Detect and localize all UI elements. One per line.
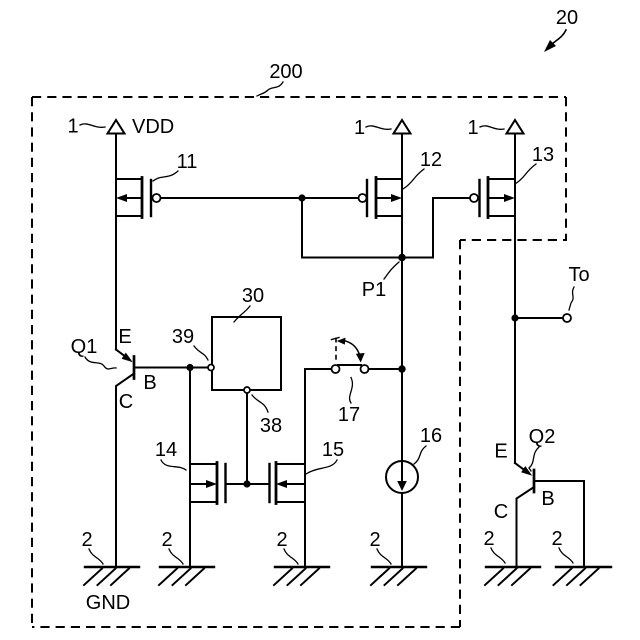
label 2 (gnd Q2 B) xyxy=(551,528,562,550)
leader 17 xyxy=(350,378,353,404)
label 2 (gnd M14) xyxy=(161,529,172,551)
ground M15 xyxy=(274,567,329,585)
pmos transistor 11 xyxy=(116,178,161,218)
label Q2 xyxy=(529,426,556,448)
junction node gates 14-15 xyxy=(243,480,250,487)
junction node on gate bus xyxy=(298,194,305,201)
svg-text:2: 2 xyxy=(369,529,380,551)
nmos transistor 15 xyxy=(247,463,305,504)
switch 17 xyxy=(332,338,369,374)
svg-text:B: B xyxy=(143,372,156,394)
label 2 (gnd M15) xyxy=(276,529,287,551)
leader 11 xyxy=(153,171,178,181)
leader 2 gnd M14 xyxy=(169,549,183,564)
wire 38 down to gates xyxy=(246,394,248,484)
svg-text:2: 2 xyxy=(483,528,494,550)
label 2 (gnd 16) xyxy=(369,529,380,551)
wire riser to gate of 13 xyxy=(433,198,470,258)
transistor Q1 xyxy=(116,216,207,567)
leader 39 xyxy=(194,346,208,360)
VDD terminal 1 (left) xyxy=(108,120,125,134)
svg-text:1: 1 xyxy=(467,117,478,139)
svg-text:Q1: Q1 xyxy=(71,336,98,358)
svg-text:C: C xyxy=(119,391,133,413)
label 2 (gnd Q1) xyxy=(81,529,92,551)
leader 15 xyxy=(306,460,337,474)
label B (Q2) xyxy=(541,488,554,510)
leader To xyxy=(569,287,574,310)
label B (Q1) xyxy=(143,372,156,394)
label To xyxy=(568,264,589,286)
label 30 xyxy=(242,285,264,307)
leader Q2 xyxy=(529,447,539,471)
pmos transistor 12 xyxy=(359,178,403,218)
leader 30 xyxy=(234,306,250,322)
label 11 xyxy=(177,151,198,173)
leader 13 xyxy=(515,164,536,184)
wire gate bus down to P1 xyxy=(302,198,433,258)
leader for 200 xyxy=(257,82,283,96)
label 1 (right) xyxy=(467,117,478,139)
pmos transistor 13 xyxy=(470,178,515,218)
svg-text:14: 14 xyxy=(155,439,177,461)
label Q1 xyxy=(71,336,98,358)
svg-text:C: C xyxy=(494,501,508,523)
svg-text:200: 200 xyxy=(269,61,302,83)
svg-text:E: E xyxy=(118,326,131,348)
nmos transistor 14 xyxy=(190,463,247,504)
svg-text:11: 11 xyxy=(177,151,198,173)
label 14 xyxy=(155,439,177,461)
transistor Q2 xyxy=(515,463,584,567)
terminal To circle xyxy=(563,314,571,322)
wire VDD1 to M11 xyxy=(115,134,117,180)
svg-text:1: 1 xyxy=(67,116,78,138)
node P1 junction xyxy=(398,254,406,262)
svg-text:16: 16 xyxy=(420,425,442,447)
svg-text:30: 30 xyxy=(242,285,264,307)
leader P1 xyxy=(384,262,399,279)
svg-text:Q2: Q2 xyxy=(529,426,556,448)
ground M14 xyxy=(159,567,214,585)
VDD terminal 1 (right) xyxy=(507,120,524,134)
label 38 xyxy=(260,415,282,437)
block 30 xyxy=(212,317,281,390)
label C (Q2) xyxy=(494,501,508,523)
leader 16 xyxy=(414,446,426,464)
label 200 xyxy=(269,61,302,83)
wire M12 drain down through switch node to current source xyxy=(401,216,403,567)
svg-text:17: 17 xyxy=(338,404,360,426)
label VDD xyxy=(132,116,174,138)
leader Q1 xyxy=(85,357,116,369)
ground Q2 base xyxy=(554,567,612,585)
svg-text:2: 2 xyxy=(551,528,562,550)
label E (Q2) xyxy=(494,441,507,463)
ground current source 16 xyxy=(371,567,426,585)
wire switch to node xyxy=(369,368,403,370)
leader 38 xyxy=(252,395,268,412)
svg-text:2: 2 xyxy=(276,529,287,551)
label 2 (gnd Q2 C) xyxy=(483,528,494,550)
ground Q2 collector xyxy=(485,567,540,585)
svg-text:38: 38 xyxy=(260,415,282,437)
label 1 (middle) xyxy=(354,117,365,139)
leader 2 gnd Q1 xyxy=(89,549,103,564)
label 12 xyxy=(420,149,442,171)
svg-text:B: B xyxy=(541,488,554,510)
VDD terminal 1 (middle) xyxy=(394,120,411,134)
svg-text:13: 13 xyxy=(532,144,554,166)
leader 2 gnd Q2 B xyxy=(559,548,573,563)
svg-text:2: 2 xyxy=(161,529,172,551)
leader 2 gnd M15 xyxy=(284,549,298,564)
wire Q1 base to M14 xyxy=(189,368,191,465)
label C (Q1) xyxy=(119,391,133,413)
wire gate bus 11-12 xyxy=(161,197,359,199)
svg-text:To: To xyxy=(568,264,589,286)
wire M14 source to ground xyxy=(189,502,191,567)
label E (Q1) xyxy=(118,326,131,348)
wire VDD1 to M12 xyxy=(401,134,403,180)
svg-text:P1: P1 xyxy=(362,279,386,301)
junction node switch xyxy=(398,365,405,372)
svg-text:39: 39 xyxy=(172,326,194,348)
label 1 (left) xyxy=(67,116,78,138)
junction node Q1 base xyxy=(186,364,193,371)
terminal 39 circle xyxy=(208,365,214,371)
ground Q1 collector xyxy=(84,567,139,585)
wire M13 drain down to Q2 xyxy=(514,216,516,463)
terminal 38 circle xyxy=(244,387,250,393)
leader 1 middle xyxy=(366,126,391,129)
svg-text:12: 12 xyxy=(420,149,442,171)
current source 16 xyxy=(386,461,418,493)
leader 1 left xyxy=(80,124,105,127)
leader 2 gnd 16 xyxy=(377,549,391,564)
label GND xyxy=(86,592,130,614)
label 39 xyxy=(172,326,194,348)
leader 2 gnd Q2 C xyxy=(491,548,505,563)
svg-text:GND: GND xyxy=(86,592,130,614)
leader 14 xyxy=(161,460,186,470)
svg-text:VDD: VDD xyxy=(132,116,174,138)
dashed boundary box 200 xyxy=(32,97,566,627)
leader 12 xyxy=(403,169,424,189)
svg-text:1: 1 xyxy=(354,117,365,139)
svg-text:2: 2 xyxy=(81,529,92,551)
wire M15 source to ground xyxy=(304,502,306,567)
svg-text:20: 20 xyxy=(556,7,578,29)
label 13 xyxy=(532,144,554,166)
label 20 xyxy=(556,7,578,29)
label 17 xyxy=(338,404,360,426)
leader 1 right xyxy=(480,126,504,129)
label P1 xyxy=(362,279,386,301)
svg-text:15: 15 xyxy=(322,439,344,461)
wire VDD1 to M13 xyxy=(514,134,516,180)
svg-text:E: E xyxy=(494,441,507,463)
wire M15 drain up to switch xyxy=(305,369,332,464)
arrow leader for 20 xyxy=(544,30,566,52)
wire to To terminal xyxy=(515,317,563,319)
junction node To xyxy=(511,314,518,321)
label 15 xyxy=(322,439,344,461)
label 16 xyxy=(420,425,442,447)
